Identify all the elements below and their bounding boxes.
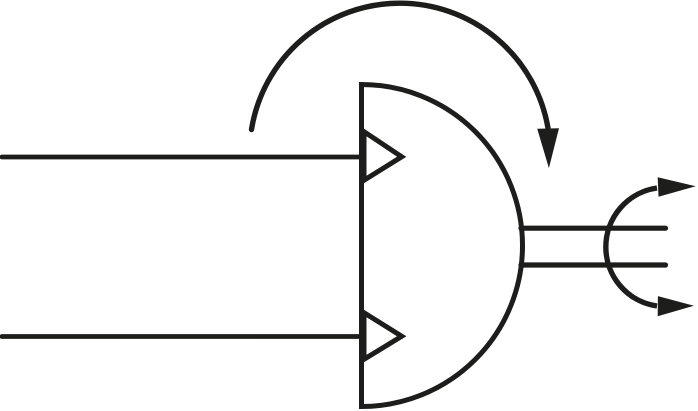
flow arrow: upper inlet triangle	[364, 132, 402, 181]
rotation arrow: arrowhead (filled, pointing down)	[537, 128, 559, 168]
swivel arrow: upper arrowhead (filled, pointing right)	[658, 177, 696, 197]
swivel arrow: lower arrowhead (filled, pointing right)	[658, 296, 694, 316]
rotation arrow: large top arc	[252, 3, 549, 129]
rotary distributor body (D-shaped semicircle)	[362, 85, 523, 407]
wire: upper left supply line	[2, 155, 359, 160]
flow arrow: lower inlet triangle	[364, 313, 402, 360]
wire: upper right outlet line	[521, 226, 666, 231]
swivel arrow: C-shaped arc	[606, 188, 657, 306]
wire: lower right outlet line	[521, 262, 666, 267]
wire: lower left supply line	[2, 334, 359, 339]
